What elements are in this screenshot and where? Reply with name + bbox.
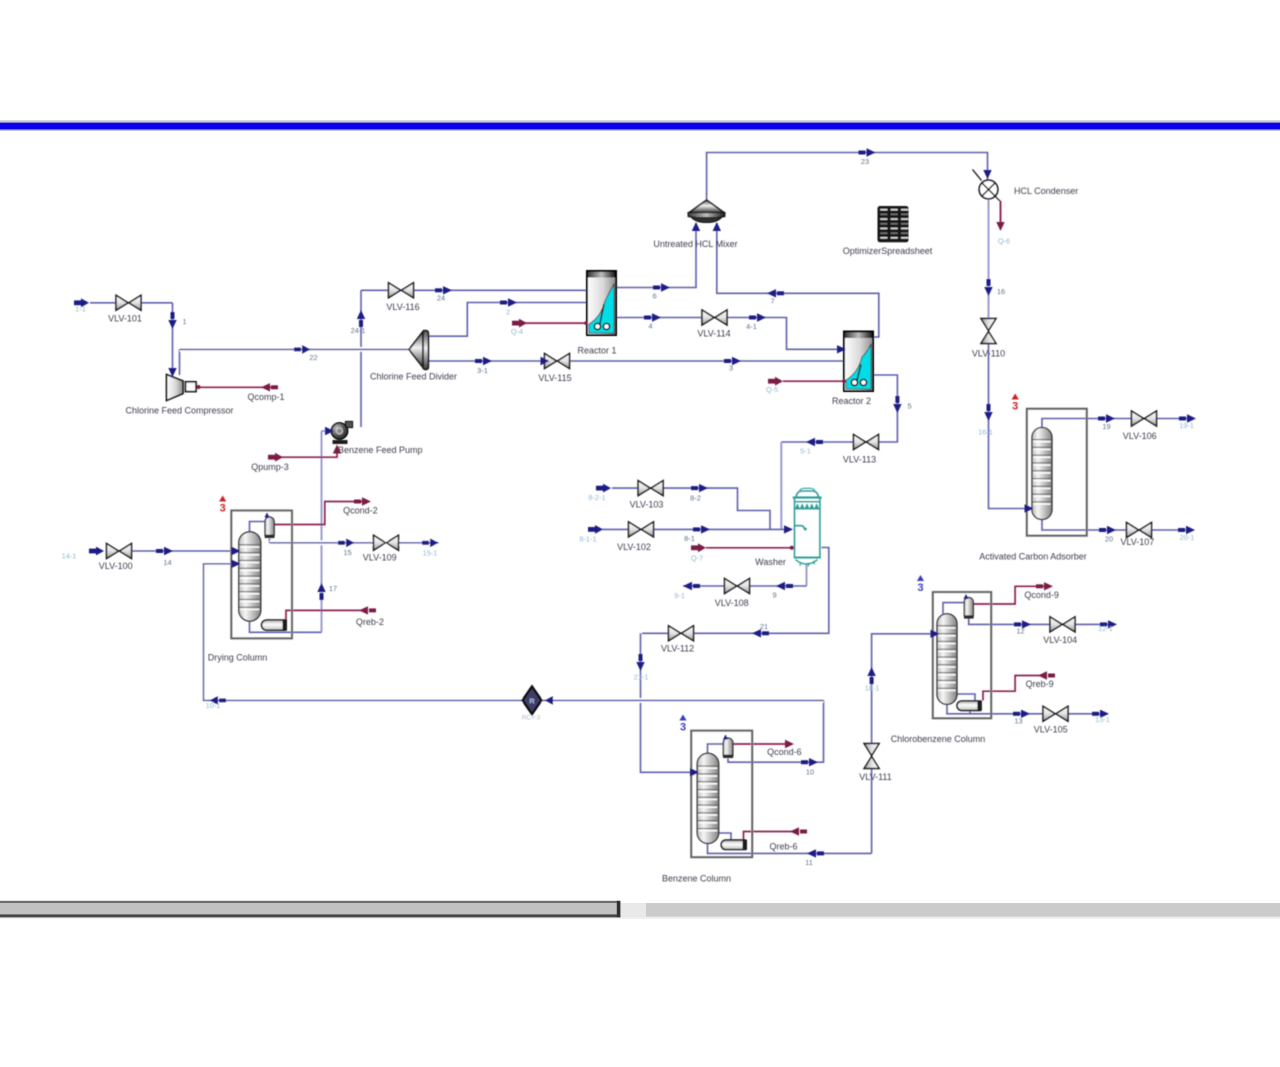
svg-text:3: 3 bbox=[220, 503, 226, 515]
node 13-1 bbox=[1092, 710, 1109, 718]
node 4-1 bbox=[749, 313, 766, 321]
valve VLV-110 (vertical) bbox=[981, 319, 996, 344]
spreadsheet OptimizerSpreadsheet icon bbox=[878, 206, 909, 242]
wire stream 11 benzene bottoms line bbox=[708, 844, 872, 854]
valve VLV-111 (vertical) bbox=[864, 744, 879, 769]
svg-text:17: 17 bbox=[329, 584, 337, 593]
svg-text:Qpump-3: Qpump-3 bbox=[251, 462, 289, 472]
svg-text:VLV-102: VLV-102 bbox=[617, 542, 651, 552]
node 8-1 bbox=[693, 525, 710, 533]
svg-text:Q-4: Q-4 bbox=[511, 327, 523, 336]
node 17 bbox=[317, 583, 325, 600]
svg-text:13-1: 13-1 bbox=[1095, 715, 1110, 724]
svg-text:4-1: 4-1 bbox=[746, 322, 757, 331]
badge red glyph Drying Column bbox=[219, 496, 226, 515]
wire 18-1 VLV-111 riser to chlorobenzene feed bbox=[872, 634, 931, 854]
node 16 bbox=[984, 279, 992, 296]
recycle RCY-3 diamond bbox=[523, 687, 542, 715]
svg-text:Chlorobenzene Column: Chlorobenzene Column bbox=[891, 734, 986, 744]
svg-text:Benzene Column: Benzene Column bbox=[662, 874, 731, 884]
svg-text:VLV-111: VLV-111 bbox=[859, 772, 892, 782]
svg-text:3: 3 bbox=[680, 722, 686, 734]
wire benzene condenser piping bbox=[708, 739, 726, 753]
svg-text:Qcond-9: Qcond-9 bbox=[1024, 590, 1059, 600]
svg-text:14: 14 bbox=[163, 558, 171, 567]
energy Qreb-6 bbox=[790, 827, 807, 835]
svg-text:3-1: 3-1 bbox=[477, 366, 488, 375]
cooler HCL Condenser bbox=[973, 170, 998, 199]
svg-text:12-1: 12-1 bbox=[1098, 624, 1113, 633]
node 9 bbox=[776, 582, 793, 590]
badge red glyph Adsorber bbox=[1012, 394, 1019, 413]
valve VLV-101 bbox=[116, 295, 141, 310]
svg-text:1: 1 bbox=[182, 317, 186, 326]
wire stream 8-1 to washer bbox=[602, 528, 791, 530]
condenser Chlorobenzene Column condenser bbox=[964, 598, 973, 616]
energy Q-4 bbox=[512, 319, 527, 328]
node 16-1 bbox=[984, 404, 992, 421]
node 12 bbox=[1014, 620, 1031, 628]
valve VLV-112 bbox=[669, 626, 694, 641]
svg-text:24: 24 bbox=[437, 294, 445, 303]
scrollbar track bbox=[0, 903, 1280, 917]
wire Qcond-2 energy bbox=[274, 502, 364, 525]
svg-text:8-2: 8-2 bbox=[690, 494, 701, 503]
valve VLV-108 bbox=[725, 579, 750, 594]
node 20-1 bbox=[1178, 526, 1195, 534]
svg-text:15-1: 15-1 bbox=[423, 549, 438, 558]
energy Qcond-6 bbox=[785, 740, 794, 748]
svg-text:16: 16 bbox=[997, 287, 1005, 296]
wire stream 21-1 drop to benzene column feed bbox=[641, 633, 692, 772]
feed 8-2-1 bbox=[596, 484, 611, 493]
condenser Benzene Column condenser bbox=[723, 738, 733, 755]
svg-text:21: 21 bbox=[760, 622, 768, 631]
wire washer overhead to stream 21 bbox=[642, 548, 829, 634]
reactor R2 Reactor 2 bbox=[844, 332, 873, 392]
wire stream 3-1 / 3 divider bottom outlet to Reactor 2 bbox=[428, 360, 845, 362]
svg-text:Qreb-2: Qreb-2 bbox=[356, 617, 384, 627]
wire recycle long line 10-1 bbox=[204, 564, 824, 701]
svg-text:3: 3 bbox=[729, 364, 733, 373]
energy Qreb-2 bbox=[359, 606, 376, 614]
wire pump suction elbow bbox=[322, 430, 328, 432]
svg-text:R: R bbox=[529, 697, 535, 706]
svg-text:Q-7: Q-7 bbox=[691, 554, 703, 563]
energy Qpump-3 bbox=[268, 453, 283, 462]
valve VLV-100 bbox=[107, 544, 132, 559]
svg-text:Chlorine Feed Divider: Chlorine Feed Divider bbox=[370, 372, 457, 382]
mixer inlet stubs bbox=[692, 222, 700, 231]
svg-text:RCY-3: RCY-3 bbox=[522, 715, 541, 722]
wire stream 4 / 4-1 Reactor1 to Reactor2 bbox=[616, 318, 845, 350]
reactor R1 Reactor 1 bbox=[587, 271, 616, 335]
svg-text:14-1: 14-1 bbox=[62, 552, 77, 561]
wire Qreb-9 energy bbox=[983, 676, 1040, 701]
svg-text:7: 7 bbox=[770, 297, 774, 306]
svg-text:2: 2 bbox=[506, 308, 510, 317]
wire washer bottoms stream 9 bbox=[806, 565, 808, 587]
wire stream 2 divider top outlet bbox=[428, 303, 587, 337]
wire stream 1 vertical to compressor bbox=[172, 303, 174, 375]
svg-text:Qreb-9: Qreb-9 bbox=[1026, 679, 1054, 689]
svg-text:10: 10 bbox=[806, 768, 814, 777]
wire stream 14 feed to drying column bbox=[106, 550, 234, 552]
wire stream 13 chlorobenzene bottoms bbox=[947, 705, 1103, 714]
energy Q-6 bbox=[996, 222, 1004, 231]
svg-text:11: 11 bbox=[805, 858, 813, 867]
condenser Drying Column condenser bbox=[265, 517, 274, 535]
wire Q-5 energy into Reactor 2 bbox=[783, 380, 846, 382]
wire stream 19 adsorber top bbox=[1042, 419, 1190, 430]
condenser top mini arrows bbox=[265, 513, 270, 518]
wire stream 1-1 feed to valve bbox=[90, 302, 173, 304]
wire drying bottoms horizontal bbox=[250, 621, 322, 633]
reboiler Benzene Column reboiler bbox=[721, 840, 745, 849]
compressor inlet arrow bbox=[168, 368, 176, 377]
svg-text:6: 6 bbox=[652, 292, 656, 301]
svg-text:1-1: 1-1 bbox=[75, 305, 86, 314]
node 13 bbox=[1013, 710, 1030, 718]
svg-text:15: 15 bbox=[343, 548, 351, 557]
node 18-1 bbox=[867, 667, 875, 684]
wire stream 12 chlorobenzene overhead bbox=[969, 619, 1110, 625]
svg-text:Qcomp-1: Qcomp-1 bbox=[247, 392, 284, 402]
wire stream 5 / 5-1 Reactor2 to washer bbox=[781, 375, 897, 442]
svg-text:VLV-113: VLV-113 bbox=[843, 455, 876, 465]
top gray separator line bbox=[0, 120, 1280, 122]
energy Qcond-9 bbox=[1036, 582, 1053, 590]
reboiler Drying Column reboiler bbox=[262, 620, 285, 630]
wire 17 riser (drying bottoms to pump) bbox=[321, 431, 323, 632]
node 12-1 bbox=[1100, 620, 1117, 628]
valve VLV-115 bbox=[545, 354, 570, 369]
svg-text:3: 3 bbox=[1012, 401, 1018, 413]
svg-text:OptimizerSpreadsheet: OptimizerSpreadsheet bbox=[843, 246, 933, 256]
svg-text:VLV-114: VLV-114 bbox=[697, 329, 730, 339]
column-box Drying Column subflowsheet box bbox=[231, 511, 292, 639]
divider Chlorine Feed Divider bbox=[409, 331, 428, 370]
svg-text:VLV-110: VLV-110 bbox=[972, 349, 1005, 359]
pump Benzene Feed Pump bbox=[331, 422, 352, 445]
wire stream 20 adsorber bottom bbox=[1042, 519, 1190, 530]
column-box Chlorobenzene Column box bbox=[933, 592, 991, 718]
valve VLV-116 bbox=[389, 283, 414, 298]
svg-text:8-1: 8-1 bbox=[684, 534, 695, 543]
svg-text:Reactor 1: Reactor 1 bbox=[577, 346, 616, 356]
valve VLV-103 bbox=[638, 481, 663, 496]
svg-text:VLV-107: VLV-107 bbox=[1120, 537, 1154, 547]
valve VLV-106 bbox=[1132, 411, 1157, 426]
svg-text:23: 23 bbox=[861, 157, 869, 166]
wire Qreb-6 energy bbox=[744, 832, 793, 841]
node 24 bbox=[435, 286, 452, 294]
wire compressor outlet riser bbox=[179, 349, 181, 375]
svg-text:22: 22 bbox=[309, 353, 317, 362]
feed 1-1 bbox=[74, 298, 89, 307]
compressor Chlorine Feed Compressor bbox=[167, 375, 201, 401]
svg-text:20: 20 bbox=[1105, 535, 1113, 544]
column Chlorobenzene Column tray column bbox=[937, 614, 957, 705]
wire Qpump-3 energy bbox=[271, 449, 337, 457]
wire stream 22 compressor to divider bbox=[180, 347, 411, 352]
svg-text:13: 13 bbox=[1014, 717, 1022, 726]
node 15 bbox=[338, 539, 355, 547]
svg-text:4: 4 bbox=[648, 322, 652, 331]
svg-text:Qreb-6: Qreb-6 bbox=[769, 841, 797, 851]
vessel Washer bbox=[793, 488, 822, 566]
svg-text:VLV-100: VLV-100 bbox=[99, 561, 133, 571]
energy Q-7 bbox=[691, 543, 706, 552]
svg-text:8-2-1: 8-2-1 bbox=[588, 493, 605, 502]
wire Qcond-6 energy bbox=[733, 743, 786, 745]
node 22 bbox=[294, 345, 311, 353]
wire benzene overhead stream 10 riser bbox=[728, 700, 824, 762]
svg-text:12: 12 bbox=[1016, 626, 1024, 635]
energy Qcond-2 bbox=[354, 497, 371, 505]
valve VLV-105 bbox=[1043, 706, 1068, 721]
node 15-1 bbox=[422, 539, 439, 547]
node 5-1 bbox=[806, 438, 823, 446]
svg-text:VLV-112: VLV-112 bbox=[661, 643, 694, 653]
wire stream 6 Reactor1 to mixer bbox=[616, 223, 696, 288]
wire stream 15 drying overhead bbox=[269, 539, 271, 543]
energy Q-5 bbox=[768, 377, 783, 386]
svg-text:24-1: 24-1 bbox=[351, 326, 366, 335]
svg-text:18-1: 18-1 bbox=[865, 684, 880, 693]
feed 14-1 bbox=[89, 547, 104, 556]
valve VLV-107 bbox=[1127, 523, 1152, 538]
wire chlorobenzene condenser piping bbox=[943, 599, 966, 614]
node 7 bbox=[767, 289, 784, 297]
energy Qcomp-1 bbox=[261, 383, 278, 391]
wire 24-1 pump discharge riser bbox=[360, 290, 362, 427]
svg-text:Q-6: Q-6 bbox=[998, 237, 1010, 246]
svg-text:VLV-103: VLV-103 bbox=[630, 499, 664, 509]
badge blue glyph Benzene Column bbox=[679, 715, 686, 734]
node 14 bbox=[156, 547, 173, 555]
column Benzene Column tray column bbox=[697, 753, 719, 843]
node 4 bbox=[644, 313, 661, 321]
svg-text:Washer: Washer bbox=[755, 557, 786, 567]
wire stream 24 valve line bbox=[361, 289, 587, 291]
svg-text:Q-5: Q-5 bbox=[766, 385, 778, 394]
mixer Untreated HCL Mixer bbox=[688, 200, 725, 223]
reboiler Chlorobenzene Column reboiler bbox=[957, 701, 980, 710]
svg-text:VLV-108: VLV-108 bbox=[715, 598, 749, 608]
svg-text:Chlorine Feed Compressor: Chlorine Feed Compressor bbox=[125, 406, 233, 416]
wire 5-1 drop to washer feed bbox=[780, 442, 782, 529]
svg-text:VLV-104: VLV-104 bbox=[1043, 635, 1077, 645]
svg-text:9: 9 bbox=[772, 591, 776, 600]
node 10 bbox=[801, 758, 818, 766]
node 6 bbox=[653, 283, 670, 291]
wire Q-4 energy into Reactor 1 bbox=[521, 322, 588, 324]
wire Q-6 energy out of HCL condenser bbox=[995, 196, 1001, 202]
svg-text:VLV-109: VLV-109 bbox=[363, 553, 397, 563]
column T Drying Column tray column bbox=[239, 532, 261, 621]
node 10-1 bbox=[209, 696, 226, 704]
feed 8-1-1 bbox=[588, 525, 603, 534]
valve VLV-114 bbox=[702, 310, 727, 325]
svg-text:VLV-106: VLV-106 bbox=[1123, 431, 1157, 441]
node 19-1 bbox=[1179, 414, 1196, 422]
node 20 bbox=[1099, 526, 1116, 534]
wire Q-7 energy into washer bbox=[706, 547, 791, 549]
svg-text:Untreated HCL Mixer: Untreated HCL Mixer bbox=[653, 239, 737, 249]
svg-text:10-1: 10-1 bbox=[206, 701, 221, 710]
svg-text:Benzene Feed Pump: Benzene Feed Pump bbox=[338, 445, 423, 455]
node 24-1 bbox=[357, 310, 365, 327]
valve VLV-113 bbox=[854, 435, 879, 450]
svg-text:21-1: 21-1 bbox=[634, 673, 649, 682]
svg-text:Reactor 2: Reactor 2 bbox=[832, 396, 871, 406]
column-box Benzene Column box bbox=[691, 731, 752, 858]
wire stream 8-2 to washer bbox=[612, 488, 770, 529]
svg-text:VLV-105: VLV-105 bbox=[1034, 725, 1068, 735]
node 5 bbox=[893, 396, 901, 413]
wire chlorobenzene reboiler piping bbox=[957, 694, 976, 701]
wire stream 16 condenser to VLV-110 to adsorber bbox=[988, 199, 990, 318]
node 21 bbox=[752, 629, 769, 637]
valve VLV-109 bbox=[374, 535, 399, 550]
wire stream 23 mixer to HCL condenser bbox=[707, 153, 988, 201]
node 1 bbox=[168, 312, 176, 329]
svg-text:5-1: 5-1 bbox=[800, 447, 811, 456]
svg-text:19-1: 19-1 bbox=[1179, 421, 1194, 430]
svg-text:Drying Column: Drying Column bbox=[208, 653, 268, 663]
node 11 bbox=[807, 849, 824, 857]
node 21-1 bbox=[636, 654, 644, 671]
svg-text:HCL Condenser: HCL Condenser bbox=[1014, 186, 1078, 196]
svg-text:VLV-116: VLV-116 bbox=[386, 302, 419, 312]
svg-text:Qcond-2: Qcond-2 bbox=[343, 505, 378, 515]
node 8-2 bbox=[691, 484, 708, 492]
node 2 bbox=[500, 298, 517, 306]
column-box Activated Carbon Adsorber box bbox=[1027, 409, 1087, 536]
svg-text:16-1: 16-1 bbox=[978, 428, 993, 437]
wire benzene reboiler piping bbox=[719, 833, 731, 840]
node 23 bbox=[859, 148, 876, 156]
wire drying condenser piping bbox=[250, 517, 268, 532]
node 3-1 bbox=[475, 357, 492, 365]
badge blue glyph Chlorobenzene Column bbox=[917, 575, 924, 594]
svg-text:VLV-115: VLV-115 bbox=[538, 373, 571, 383]
svg-text:5: 5 bbox=[907, 402, 911, 411]
wire stream 7 Reactor2 to mixer bbox=[717, 223, 879, 337]
node 9-1 bbox=[683, 582, 700, 590]
node 19 bbox=[1098, 414, 1115, 422]
wire Qreb-2 energy bbox=[286, 610, 367, 620]
wire Qcond-9 energy bbox=[972, 586, 1045, 604]
svg-text:VLV-101: VLV-101 bbox=[108, 314, 142, 324]
top blue bar bbox=[0, 123, 1280, 130]
node 3 bbox=[724, 357, 741, 365]
wire Qcomp-1 energy bbox=[197, 386, 271, 388]
valve VLV-104 bbox=[1050, 617, 1075, 632]
energy Qreb-9 bbox=[1038, 671, 1055, 679]
valve VLV-102 bbox=[629, 522, 654, 537]
svg-text:20-1: 20-1 bbox=[1180, 533, 1195, 542]
column Activated Carbon Adsorber vessel bbox=[1032, 428, 1052, 520]
svg-text:Qcond-6: Qcond-6 bbox=[767, 747, 802, 757]
svg-text:Activated Carbon Adsorber: Activated Carbon Adsorber bbox=[979, 552, 1087, 562]
svg-text:8-1-1: 8-1-1 bbox=[579, 535, 596, 544]
svg-text:9-1: 9-1 bbox=[674, 591, 685, 600]
svg-text:3: 3 bbox=[917, 582, 923, 594]
scrollbar thumb bbox=[0, 903, 619, 918]
svg-text:19: 19 bbox=[1102, 422, 1110, 431]
